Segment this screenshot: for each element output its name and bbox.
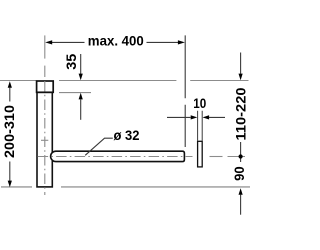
dimension 90 [231, 166, 247, 215]
svg-text:max. 400: max. 400 [88, 32, 144, 48]
svg-text:200-310: 200-310 [1, 105, 17, 158]
dimension 200-310 [1, 81, 17, 187]
svg-text:35: 35 [63, 54, 79, 70]
centerline cross dash [41, 139, 48, 141]
svg-text:110-220: 110-220 [233, 87, 249, 140]
dimension 110-220 [233, 53, 249, 163]
floor line [1, 186, 250, 188]
dimension 10 [167, 95, 225, 141]
collar [37, 81, 54, 92]
horizontal waste pipe [51, 151, 185, 161]
leader line diameter [85, 127, 139, 155]
extension line pipe end [184, 35, 186, 147]
extension line collar bottom [59, 92, 91, 94]
dimension 35 [63, 54, 83, 120]
vertical pipe body [37, 92, 52, 187]
svg-text:ø 32: ø 32 [114, 127, 140, 143]
extension line collar top [0, 80, 249, 82]
wall flange [198, 141, 203, 167]
dimension max. 400 [45, 32, 185, 48]
svg-text:90: 90 [231, 166, 247, 181]
svg-text:10: 10 [193, 95, 206, 111]
vertical centerline [44, 35, 46, 195]
horizontal centerline [38, 156, 245, 158]
node axis dot [239, 154, 243, 158]
